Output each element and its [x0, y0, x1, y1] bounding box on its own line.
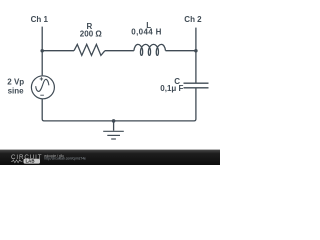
svg-text:http:⁄⁄circuitlab.com⁄cpmz74e: http:⁄⁄circuitlab.com⁄cpmz74e	[44, 157, 86, 161]
svg-text:Ch 2: Ch 2	[184, 15, 202, 24]
svg-text:Ch 1: Ch 1	[31, 15, 49, 24]
svg-text:200 Ω: 200 Ω	[80, 29, 103, 38]
svg-text:0,1μ F: 0,1μ F	[160, 84, 183, 93]
svg-text:2 Vp: 2 Vp	[7, 77, 24, 86]
svg-text:LAB: LAB	[26, 159, 35, 164]
svg-text:sine: sine	[8, 87, 25, 96]
svg-text:0,044 H: 0,044 H	[131, 28, 161, 37]
